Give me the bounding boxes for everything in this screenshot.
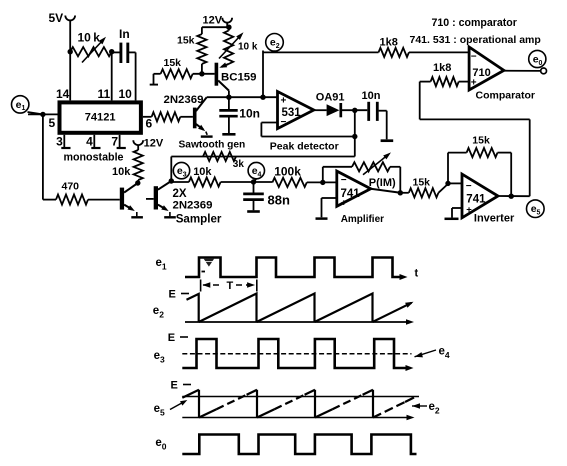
svg-text:5: 5 [49,116,56,130]
svg-text:10k: 10k [112,166,131,178]
svg-text:E: E [169,289,176,301]
svg-text:E: E [171,380,178,392]
svg-text:74121: 74121 [85,112,116,124]
svg-text:−: − [341,175,347,186]
svg-text:Amplifier: Amplifier [341,214,384,225]
svg-text:monostable: monostable [64,152,124,164]
svg-text:12V: 12V [203,15,223,27]
svg-text:2N2369: 2N2369 [173,200,213,212]
svg-text:10 k: 10 k [238,42,258,53]
svg-text:10n: 10n [362,90,381,102]
svg-text:P(IM): P(IM) [369,177,396,189]
svg-text:12V: 12V [144,138,164,150]
svg-text:88n: 88n [268,193,290,208]
svg-text:10k: 10k [193,166,212,178]
svg-text:3: 3 [56,135,63,149]
svg-text:10: 10 [119,87,133,101]
svg-text:15k: 15k [164,57,182,69]
svg-text:4: 4 [86,135,93,149]
svg-text:10 k: 10 k [78,31,101,45]
svg-text:710 : comparator: 710 : comparator [432,17,517,29]
svg-text:BC159: BC159 [221,72,256,84]
svg-text:Comparator: Comparator [476,90,536,102]
svg-text:14: 14 [56,87,70,101]
svg-text:−: − [281,117,287,128]
svg-text:Sawtooth gen: Sawtooth gen [179,140,246,151]
svg-text:6: 6 [146,117,153,131]
svg-text:2N2369: 2N2369 [164,94,204,106]
svg-text:−: − [471,52,477,63]
svg-text:5V: 5V [49,11,64,25]
svg-text:7: 7 [111,135,118,149]
svg-text:E: E [168,332,175,344]
svg-text:In: In [119,27,130,41]
svg-text:3k: 3k [233,159,245,170]
svg-text:100k: 100k [274,165,301,179]
svg-text:741. 531 : operational amp: 741. 531 : operational amp [410,34,541,46]
svg-text:Peak detector: Peak detector [270,140,339,152]
svg-text:+: + [341,198,347,209]
svg-text:15k: 15k [413,177,431,189]
svg-text:+: + [281,96,287,107]
svg-text:−: − [466,181,472,192]
svg-text:t: t [415,268,419,280]
svg-text:Sampler: Sampler [176,212,222,225]
svg-text:+: + [471,78,477,89]
svg-text:11: 11 [98,87,111,101]
svg-text:15k: 15k [472,135,490,147]
svg-text:10n: 10n [239,107,260,121]
svg-text:Inverter: Inverter [474,213,515,225]
svg-text:2X: 2X [173,188,187,200]
svg-text:OA91: OA91 [316,92,345,104]
svg-text:470: 470 [62,181,80,193]
svg-text:15k: 15k [177,34,195,46]
svg-text:+: + [466,205,472,216]
svg-text:1k8: 1k8 [380,37,398,49]
svg-text:T: T [227,280,234,292]
svg-text:1k8: 1k8 [433,62,451,74]
